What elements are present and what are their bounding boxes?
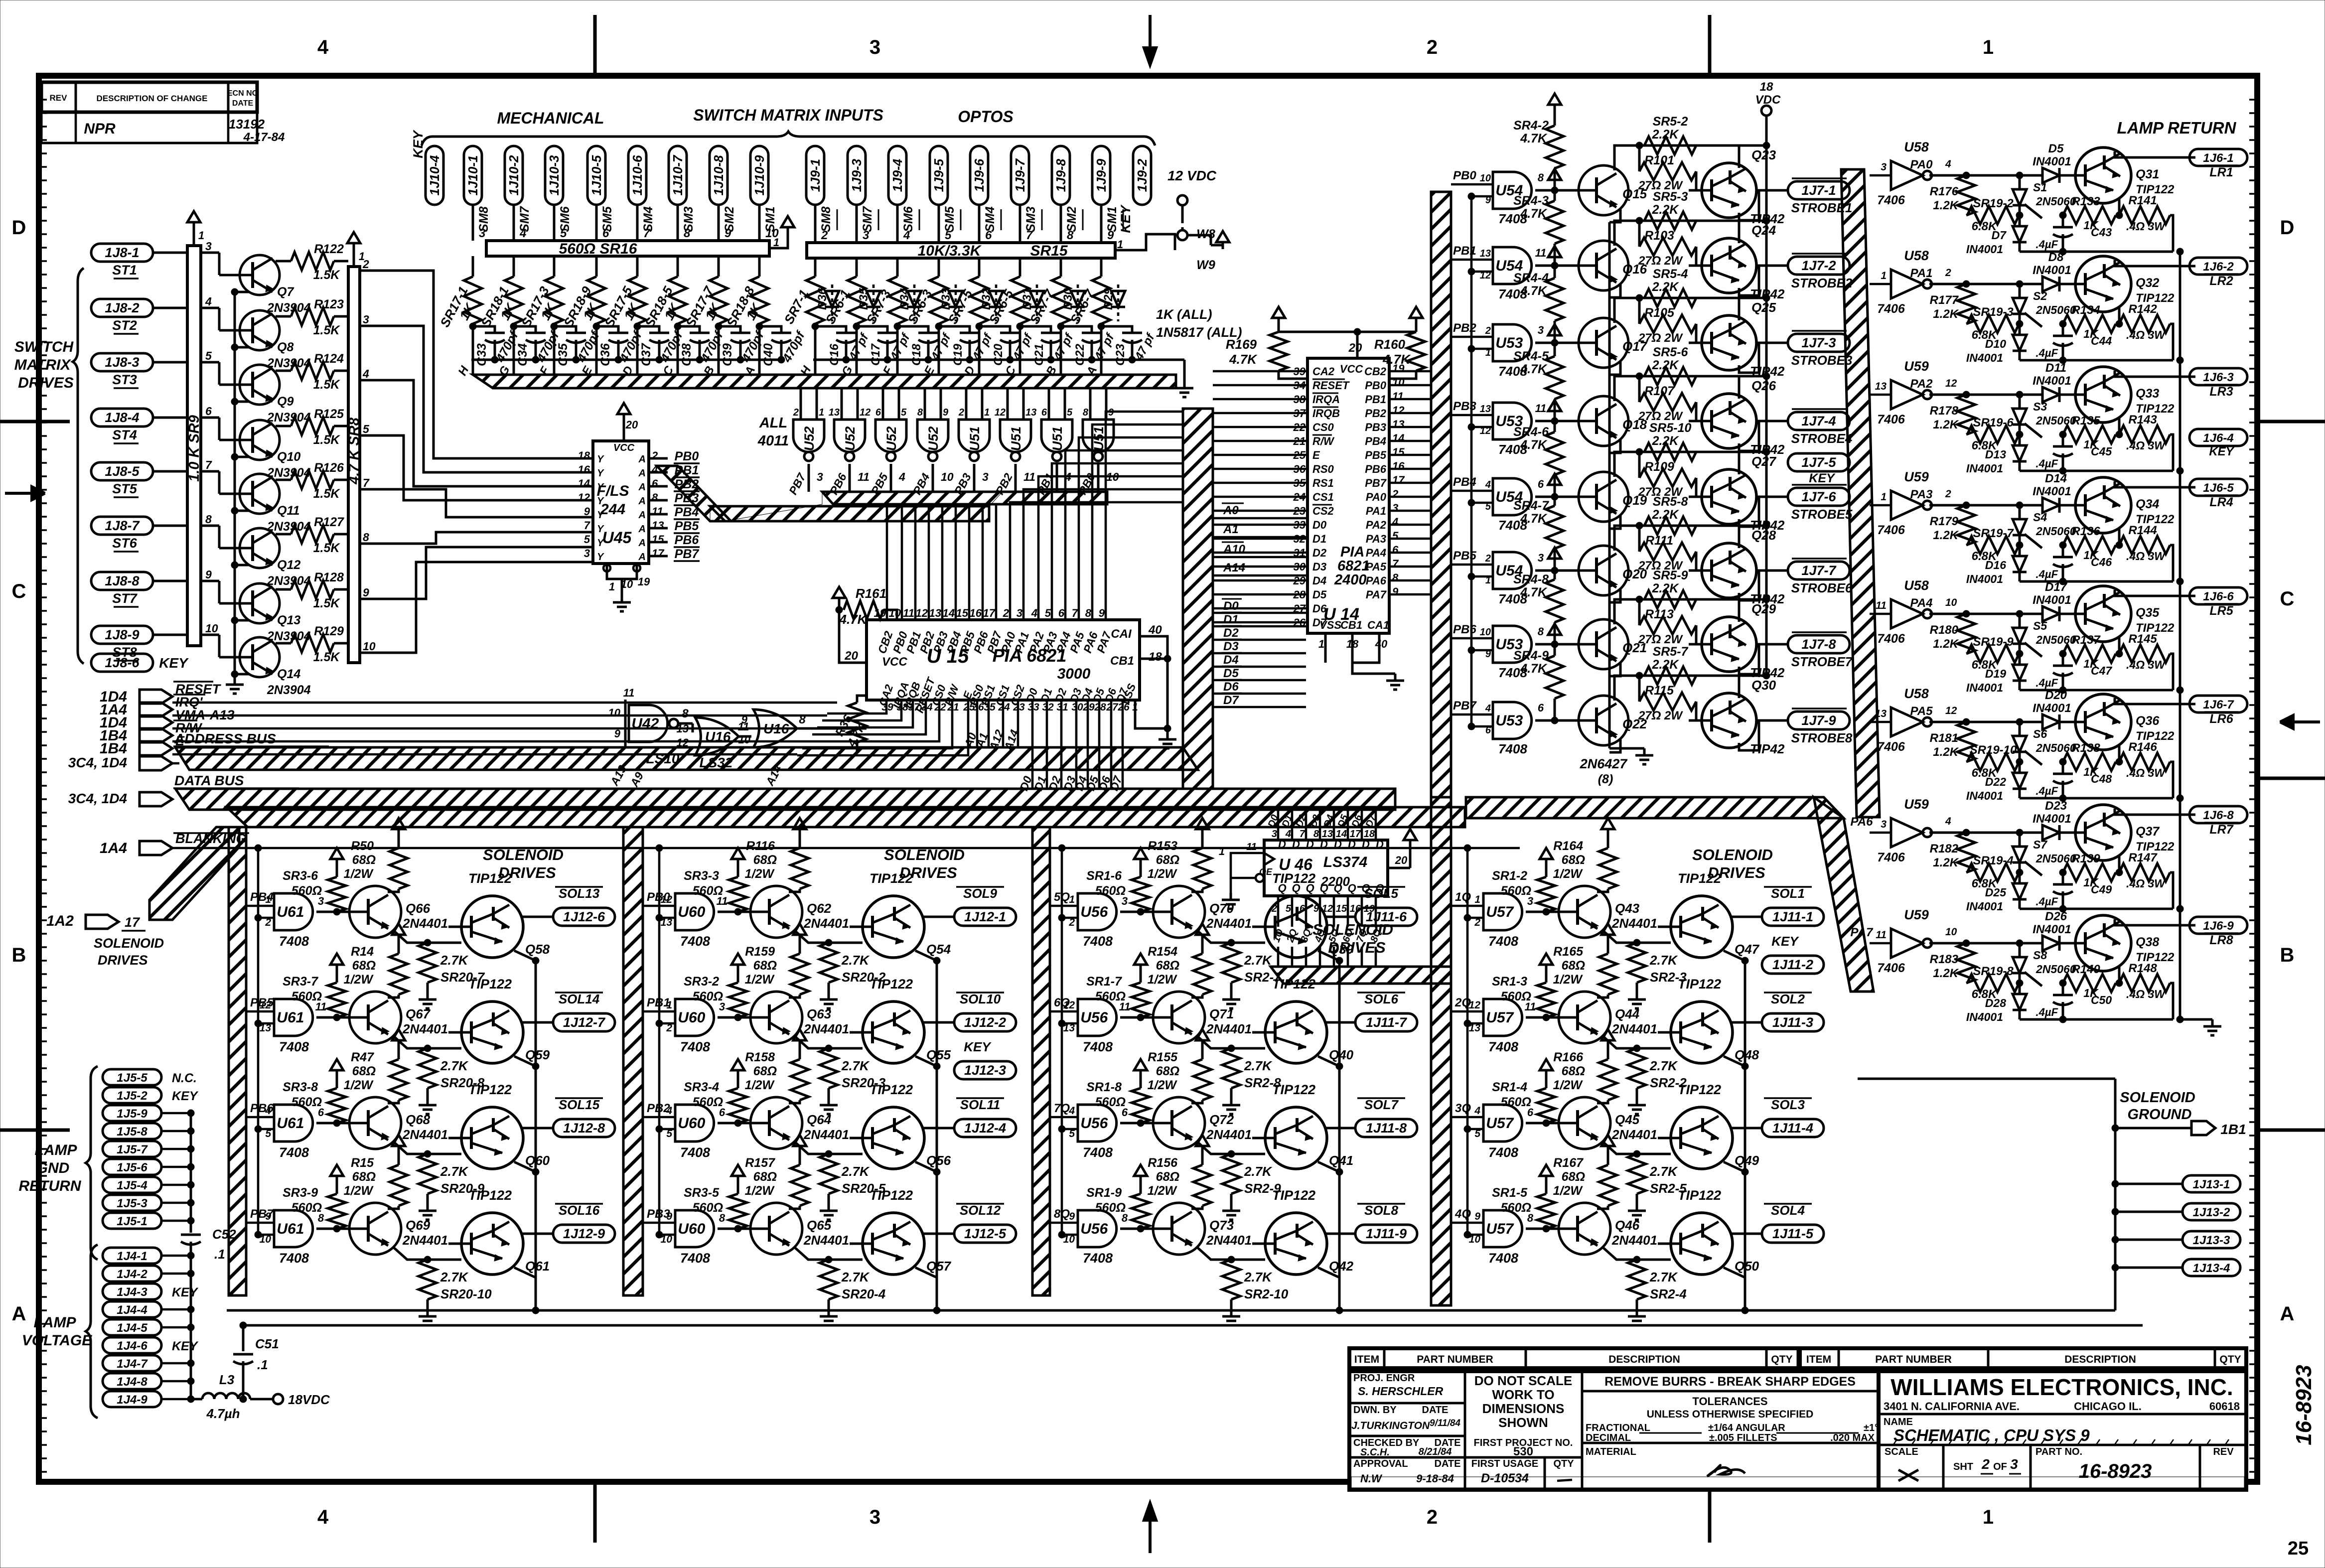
ground [820, 1309, 838, 1325]
wire gate output to Q17 base [1535, 342, 1578, 344]
svg-text:LS374: LS374 [1323, 854, 1368, 870]
svg-text:CAI: CAI [1111, 627, 1132, 641]
wire [758, 205, 761, 241]
svg-text:2.7K: 2.7K [440, 1164, 469, 1179]
resistor R155 68ohm 1/2W [1196, 1029, 1209, 1047]
svg-text:11: 11 [1876, 600, 1887, 611]
svg-text:SR19-6: SR19-6 [1973, 416, 2014, 429]
svg-text:ST5: ST5 [112, 481, 138, 496]
resistor R180 1.2K [1957, 614, 1975, 654]
wire TIP42 emitter to 18VDC rail [1738, 599, 1741, 622]
diode D32 1N5817 [995, 285, 998, 321]
svg-text:8: 8 [1538, 171, 1544, 184]
resistor R111 27ohm 2W [1638, 526, 1641, 552]
svg-text:PB6: PB6 [1365, 463, 1387, 475]
svg-text:4.7K: 4.7K [1520, 207, 1548, 221]
svg-text:R47: R47 [351, 1050, 374, 1064]
resistor pack SR8 4.7K [348, 267, 360, 663]
connector 1J4-6 KEY [103, 1337, 161, 1353]
TIP122 collector rail [1338, 961, 1341, 1310]
svg-text:1.2K: 1.2K [1933, 199, 1959, 212]
svg-text:6: 6 [985, 229, 992, 242]
svg-text:8: 8 [1392, 571, 1399, 584]
svg-text:FRACTIONAL: FRACTIONAL [1586, 1423, 1650, 1433]
diode D35 1N5817 [872, 285, 875, 321]
svg-text:1J13-3: 1J13-3 [2193, 1234, 2230, 1247]
transistor Q22 2N6427 [1565, 696, 1628, 745]
title block inner lines [1349, 1402, 1465, 1405]
resistor SR4-6 4.7K [1548, 400, 1561, 418]
svg-text:1J11-8: 1J11-8 [1366, 1121, 1407, 1136]
svg-text:.4Ω 3W: .4Ω 3W [2126, 658, 2166, 671]
svg-text:13192: 13192 [229, 117, 265, 132]
svg-text:560Ω: 560Ω [1095, 884, 1126, 898]
transistor Q60 TIP122 [448, 1107, 523, 1169]
svg-text:Q71: Q71 [1209, 1006, 1234, 1021]
svg-text:U57: U57 [1486, 1115, 1514, 1132]
svg-text:KEY: KEY [1809, 471, 1836, 485]
svg-text:STROBE5: STROBE5 [1791, 507, 1853, 522]
nand gate U52 4011 input wires [841, 388, 843, 420]
svg-text:1: 1 [1474, 894, 1480, 905]
svg-text:Q58: Q58 [525, 942, 550, 957]
svg-text:1J11-7: 1J11-7 [1366, 1015, 1408, 1030]
svg-text:1.2K: 1.2K [1933, 745, 1959, 759]
wire [1213, 482, 1308, 484]
svg-text:12: 12 [916, 607, 928, 619]
svg-text:C35: C35 [556, 343, 570, 366]
pia U14 6821 box [1308, 358, 1389, 633]
svg-text:R14: R14 [351, 945, 374, 959]
connector 1J10-9 switch input SM1 [750, 146, 768, 205]
svg-text:5: 5 [363, 423, 370, 435]
svg-text:A14: A14 [1223, 561, 1245, 574]
capacitor C38 470pf [678, 326, 700, 333]
wire emitter to TIP122 base [1196, 1035, 1265, 1048]
svg-text:12: 12 [1945, 705, 1957, 716]
svg-text:PB2: PB2 [1453, 321, 1476, 335]
transistor Q54 TIP122 [850, 896, 924, 958]
or gate U16b LS32 [739, 735, 751, 738]
svg-text:40: 40 [1375, 638, 1388, 650]
svg-text:D6: D6 [1312, 602, 1327, 615]
svg-text:C22: C22 [1073, 343, 1087, 366]
svg-text:1J4-5: 1J4-5 [117, 1321, 147, 1335]
wire [153, 252, 187, 254]
svg-text:10: 10 [608, 707, 621, 719]
connector 1J11-4 solenoid SOL3 [1762, 1119, 1824, 1137]
svg-text:TOLERANCES: TOLERANCES [1692, 1395, 1767, 1408]
wire [1389, 412, 1431, 415]
svg-text:1/2W: 1/2W [1148, 867, 1178, 881]
thyristor S6 2N5060 [2019, 722, 2021, 735]
svg-text:VCC: VCC [613, 442, 635, 453]
wire TIP42 collector to strobe connector [1739, 343, 1788, 373]
svg-text:2N3904: 2N3904 [267, 683, 311, 697]
svg-text:U16: U16 [705, 729, 731, 744]
title block parts list header [1349, 1348, 2246, 1368]
svg-text:KEY: KEY [159, 655, 189, 671]
wire [161, 1362, 191, 1365]
resistor R116 68ohm 1/2W [793, 818, 806, 836]
svg-text:8: 8 [1538, 625, 1544, 638]
svg-text:3: 3 [982, 470, 989, 483]
wire U15 pin PA2 [1038, 476, 1183, 620]
wire gate output to Q15 base [1535, 189, 1578, 192]
transistor Q13 2N3904 [226, 583, 280, 623]
wire emitter to ground rail [1609, 440, 1620, 453]
svg-text:PART NUMBER: PART NUMBER [1417, 1354, 1493, 1365]
wire 2Q to bus [1291, 947, 1294, 967]
svg-text:SR4-6: SR4-6 [1513, 425, 1549, 439]
svg-text:Q65: Q65 [807, 1218, 832, 1233]
resistor R123 1.5K [272, 315, 287, 316]
wire gate output to PB bus [1097, 464, 1100, 492]
transistor Q62 2N4401 [736, 886, 802, 938]
svg-text:SR5-8: SR5-8 [1653, 495, 1688, 509]
svg-text:1J7-4: 1J7-4 [1801, 414, 1836, 428]
border zone ticks bottom [593, 1482, 597, 1543]
wire lamp row lower rail [2020, 797, 2173, 800]
resistor R47 68ohm 1/2W [392, 1029, 405, 1047]
capacitor C46 .47uF [2062, 545, 2064, 557]
svg-text:4: 4 [898, 470, 905, 483]
svg-text:CB1: CB1 [1340, 619, 1362, 631]
resistor R107 27ohm 2W [1638, 376, 1641, 402]
wire U15 pin PA0 [1010, 502, 1183, 620]
wire [1213, 566, 1308, 568]
svg-text:U61: U61 [277, 1221, 304, 1237]
and gate U61 7408 [274, 893, 313, 930]
svg-text:SR19-2: SR19-2 [1973, 197, 2014, 210]
svg-text:1.2K: 1.2K [1933, 307, 1959, 321]
svg-text:6: 6 [1392, 544, 1399, 556]
U15 data pin wires to data bus [1031, 700, 1034, 789]
svg-text:Q63: Q63 [807, 1006, 832, 1021]
wire TIP42 collector to strobe connector [1739, 644, 1788, 674]
svg-text:16: 16 [1392, 460, 1405, 472]
svg-text:SR4-7: SR4-7 [1513, 499, 1549, 513]
capacitor C48 .47uF [2062, 762, 2064, 774]
transistor Q12 2N3904 [226, 528, 280, 568]
svg-text:7408: 7408 [1488, 1145, 1518, 1160]
svg-text:3: 3 [205, 240, 212, 253]
svg-text:1K: 1K [2083, 549, 2099, 562]
resistor SR3-3 560ohm [731, 848, 744, 866]
transistor Q41 TIP122 [1252, 1107, 1327, 1169]
wire gate output to PB bus [849, 464, 851, 492]
svg-text:SOL2: SOL2 [1771, 992, 1805, 1006]
connector 1J9-8 opto input SM2 [1052, 146, 1070, 205]
svg-text:1.0 K SR9: 1.0 K SR9 [186, 415, 202, 482]
connector 1J5-1 lamp gnd [103, 1213, 161, 1229]
svg-text:C33: C33 [475, 343, 489, 366]
resistor R147 .4ohm 3W [2119, 863, 2170, 881]
svg-text:2N4401: 2N4401 [402, 1127, 448, 1142]
svg-text:5: 5 [265, 1128, 271, 1140]
svg-text:SHT: SHT [1953, 1461, 1973, 1472]
svg-text:2N4401: 2N4401 [1206, 916, 1252, 931]
svg-text:IN4001: IN4001 [1966, 681, 2003, 694]
svg-text:8Q: 8Q [1054, 1207, 1070, 1221]
address data bus channel to U14 [1183, 409, 1213, 789]
svg-text:KEY: KEY [2209, 445, 2234, 458]
svg-text:S2: S2 [2033, 289, 2047, 302]
svg-text:IN4001: IN4001 [1966, 462, 2003, 475]
wire gate out to base [1526, 1122, 1559, 1125]
svg-text:C21: C21 [1032, 344, 1046, 366]
svg-text:D4: D4 [1312, 574, 1326, 587]
svg-text:5: 5 [560, 227, 567, 240]
wire [1389, 524, 1431, 526]
connector 1J11-9 solenoid SOL8 [1355, 1225, 1417, 1243]
wire gate out to base [718, 911, 750, 913]
connector 1J8-1 strobe ST1 [91, 244, 153, 262]
resistor R140 1K [2063, 974, 2116, 992]
svg-text:STROBE8: STROBE8 [1791, 730, 1853, 745]
transistor Q39 TIP122 [1252, 896, 1327, 958]
wire emitter to ground rail [235, 674, 249, 681]
svg-text:560Ω: 560Ω [1095, 990, 1126, 1003]
svg-text:SR15: SR15 [1030, 243, 1068, 259]
wire gate out to base [718, 1228, 750, 1230]
inverter U59 7406 [1891, 818, 1923, 847]
svg-text:5: 5 [1392, 530, 1399, 542]
emitter ground rail strobes [1608, 222, 1611, 748]
svg-text:LS10: LS10 [646, 751, 680, 766]
connector 1J8-8 strobe ST7 [91, 572, 153, 590]
svg-text:S4: S4 [2033, 511, 2047, 524]
resistor R127 1.5K [272, 533, 287, 534]
svg-text:4: 4 [362, 367, 369, 380]
diode D28 1N4001 [2013, 994, 2027, 1010]
svg-text:4: 4 [317, 36, 329, 58]
wire emitter to ground rail [235, 292, 249, 299]
svg-text:1K: 1K [2083, 876, 2099, 889]
capacitor C20 47pf [979, 326, 1010, 333]
svg-text:PB2: PB2 [1365, 407, 1387, 420]
svg-text:3: 3 [479, 227, 486, 240]
wire [553, 205, 556, 241]
connector 1J4-2 lamp voltage [103, 1266, 161, 1282]
transistor Q37 TIP122 [2062, 805, 2131, 860]
wire TIP122 emitter [2118, 198, 2121, 215]
svg-text:2: 2 [362, 258, 369, 271]
resistor R103 27ohm 2W [1638, 221, 1641, 247]
wire collector to connector [1732, 1233, 1761, 1235]
thyristor S8 2N5060 [2019, 943, 2021, 956]
svg-text:Q64: Q64 [807, 1112, 832, 1127]
svg-text:SOL8: SOL8 [1364, 1203, 1398, 1218]
svg-text:1J10-6: 1J10-6 [630, 155, 645, 195]
svg-text:CB1: CB1 [1110, 654, 1134, 668]
svg-text:D23: D23 [2045, 799, 2067, 813]
svg-text:4-17-84: 4-17-84 [243, 131, 285, 144]
resistor R109 27ohm 2W [1638, 452, 1641, 478]
svg-text:2N3904: 2N3904 [267, 356, 311, 370]
svg-text:12: 12 [860, 407, 871, 418]
svg-text:4.7K: 4.7K [1520, 132, 1548, 145]
resistor R144 .4ohm 3W [2119, 536, 2170, 554]
svg-text:SOL9: SOL9 [963, 886, 997, 901]
svg-text:A: A [638, 454, 646, 465]
wire inverter out to TIP122 base [1929, 504, 2042, 507]
connector 1J8-3 strobe ST3 [91, 353, 153, 371]
svg-text:SR1-9: SR1-9 [1086, 1186, 1122, 1200]
transistor Q16 2N6427 [1565, 241, 1628, 290]
svg-text:2N5060: 2N5060 [2035, 303, 2076, 316]
resistor SR3-8 560ohm [330, 1059, 343, 1077]
U46 D input 2 [1305, 810, 1308, 840]
svg-text:7408: 7408 [1488, 934, 1518, 949]
resistor 2.7K SR2-4 [1628, 1260, 1646, 1299]
svg-text:1J5-7: 1J5-7 [117, 1143, 148, 1156]
svg-text:9: 9 [666, 1211, 672, 1222]
transistor Q66 2N4401 [335, 886, 401, 938]
svg-text:TIP122: TIP122 [870, 1188, 913, 1203]
resistor R161 4.7K pullup [833, 587, 846, 605]
ground strobes [1635, 748, 1653, 764]
svg-text:Q34: Q34 [2136, 497, 2159, 511]
svg-text:R160: R160 [1374, 337, 1406, 352]
svg-text:TIP122: TIP122 [2136, 621, 2175, 635]
svg-text:U57: U57 [1486, 1221, 1514, 1237]
svg-text:R109: R109 [1644, 460, 1674, 474]
ground [419, 1204, 436, 1220]
svg-text:Q32: Q32 [2136, 276, 2159, 290]
svg-text:7408: 7408 [1498, 741, 1527, 756]
and gate U60 7408 [675, 999, 714, 1036]
svg-text:A: A [2280, 1303, 2295, 1325]
wire U15 pin 12 [928, 504, 930, 620]
svg-text:2.2K: 2.2K [1652, 581, 1680, 595]
svg-text:DESCRIPTION: DESCRIPTION [2064, 1354, 2136, 1365]
and gate U61 7408 [274, 1210, 313, 1247]
svg-text:VSS: VSS [1319, 619, 1341, 631]
capacitor C35 470pf [554, 326, 576, 333]
svg-text:SR1-7: SR1-7 [1086, 975, 1122, 989]
svg-text:TIP122: TIP122 [2136, 513, 2175, 526]
svg-text:D20: D20 [2045, 689, 2067, 702]
resistor R113 27ohm 2W [1638, 599, 1641, 625]
svg-text:1J5-9: 1J5-9 [117, 1107, 147, 1121]
svg-text:S3: S3 [2033, 400, 2047, 413]
ground [1628, 1098, 1646, 1114]
svg-text:D1: D1 [1223, 613, 1239, 626]
inverter U59 7406 [1891, 380, 1923, 409]
svg-text:TIP122: TIP122 [1678, 1082, 1721, 1097]
svg-text:1J4-8: 1J4-8 [117, 1375, 147, 1389]
svg-text:1J4-3: 1J4-3 [117, 1285, 147, 1299]
resistor SR7-3 1K [896, 258, 899, 277]
svg-text:10: 10 [363, 640, 376, 653]
svg-text:68Ω: 68Ω [753, 853, 777, 867]
svg-text:16: 16 [970, 607, 982, 619]
nand gate U51 4011 input wires [1048, 388, 1050, 420]
resistor 2.7K SR2-3 [1628, 943, 1646, 983]
svg-text:N.W: N.W [1360, 1472, 1383, 1485]
transistor Q26 TIP42 [1689, 394, 1756, 448]
resistor SR1-2 560ohm [1540, 848, 1553, 866]
wire [1213, 510, 1308, 512]
jumper W8 dashed wire [1181, 205, 1184, 219]
svg-text:Q11: Q11 [277, 504, 299, 518]
svg-text:PB4: PB4 [675, 505, 699, 519]
svg-text:1/2W: 1/2W [344, 867, 374, 881]
svg-text:1.2K: 1.2K [1933, 637, 1959, 651]
wire [1060, 205, 1062, 243]
resistor SR5-7 2.2K [1644, 667, 1696, 685]
svg-text:1K (ALL): 1K (ALL) [1156, 307, 1212, 322]
svg-text:Q30: Q30 [1751, 678, 1776, 693]
wire collector to TIP42 base [1614, 599, 1766, 624]
svg-text:KEY: KEY [964, 1039, 992, 1054]
svg-text:2: 2 [1945, 267, 1951, 279]
wire gate output to Q19 base [1535, 496, 1578, 498]
transistor Q55 TIP122 [850, 1001, 924, 1063]
resistor SR3-9 560ohm [330, 1165, 343, 1183]
resistor SR17-5 1K [636, 256, 639, 277]
svg-text:TIP122: TIP122 [870, 1082, 913, 1097]
resistor 2.7K SR20-7 [419, 943, 436, 983]
svg-text:8: 8 [652, 491, 658, 504]
address bus band [175, 747, 1198, 770]
resistor SR19-4 6.8K [1967, 863, 2019, 881]
resistor SR4-4 4.7K [1548, 246, 1561, 264]
svg-text:1K: 1K [2083, 327, 2099, 340]
VCC arrow SR16 [781, 216, 794, 234]
transistor Q64 2N4401 [736, 1097, 802, 1149]
wire emitter to ground rail [235, 565, 249, 572]
svg-text:PA5: PA5 [1366, 561, 1387, 573]
svg-text:D3: D3 [1312, 561, 1326, 573]
svg-text:SOL10: SOL10 [960, 992, 1001, 1006]
svg-text:9: 9 [205, 568, 212, 581]
svg-text:68Ω: 68Ω [1156, 1064, 1179, 1078]
svg-text:2: 2 [1474, 917, 1480, 928]
svg-text:ST6: ST6 [112, 536, 138, 551]
wire TIP42 emitter to 18VDC rail [1738, 145, 1741, 168]
U46 D input 3 [1319, 810, 1321, 840]
transistor Q8 2N3904 [226, 310, 280, 350]
svg-text:C51: C51 [255, 1336, 279, 1351]
connector 1J7-7 [1788, 562, 1850, 579]
wire CA1 to CB1 rail [1140, 636, 1167, 732]
svg-text:R183: R183 [1930, 953, 1959, 966]
svg-text:1/2W: 1/2W [1148, 1078, 1178, 1092]
right registration arrow [2280, 715, 2320, 728]
connector key 1J9-2 [1133, 146, 1151, 205]
resistor 2.7K SR2-8 [1222, 1048, 1240, 1088]
svg-text:2N4401: 2N4401 [402, 916, 448, 931]
svg-text:D16: D16 [1985, 559, 2006, 571]
node A14 [1017, 700, 1019, 747]
svg-text:IN4001: IN4001 [1966, 789, 2003, 802]
wire gate out to base [1526, 1228, 1559, 1230]
svg-text:PB2: PB2 [675, 477, 699, 491]
PB bus diagonal from U45 [657, 466, 731, 521]
svg-text:17: 17 [652, 547, 665, 560]
svg-text:J.TURKINGTON: J.TURKINGTON [1351, 1420, 1430, 1431]
connector 1J4-4 lamp voltage [103, 1301, 161, 1317]
svg-text:2N4401: 2N4401 [402, 1021, 448, 1036]
capacitor C47 .47uF [2062, 654, 2064, 666]
svg-text:19: 19 [1392, 362, 1405, 375]
wire emitter to TIP122 base [794, 1247, 863, 1260]
svg-text:1: 1 [1318, 638, 1324, 650]
svg-text:7408: 7408 [680, 1145, 710, 1160]
ground [1222, 1204, 1240, 1220]
